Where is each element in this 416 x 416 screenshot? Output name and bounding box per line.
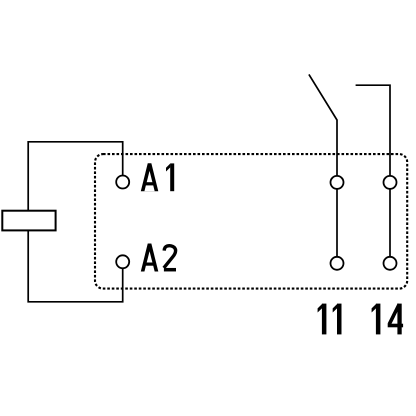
relay body dashed outline (95, 154, 407, 289)
terminal 11 upper circle (331, 176, 344, 189)
wire coil bottom to A2 (28, 230, 123, 302)
terminal A2 circle (116, 255, 129, 268)
wire coil top to A1 (28, 142, 123, 211)
terminal 11 lower circle (331, 257, 344, 270)
label 11 (318, 304, 342, 335)
wire contact 14 (389, 189, 391, 257)
terminal 14 upper circle (384, 176, 397, 189)
terminal A1 circle (116, 176, 129, 189)
wire contact 11 (336, 189, 338, 257)
coil (2, 211, 55, 231)
label A1 (141, 163, 174, 191)
switch blade (309, 74, 337, 175)
label 14 (372, 304, 404, 335)
label A2 (141, 244, 176, 272)
terminal 14 lower circle (384, 257, 397, 270)
fixed contact 14 (356, 85, 390, 176)
